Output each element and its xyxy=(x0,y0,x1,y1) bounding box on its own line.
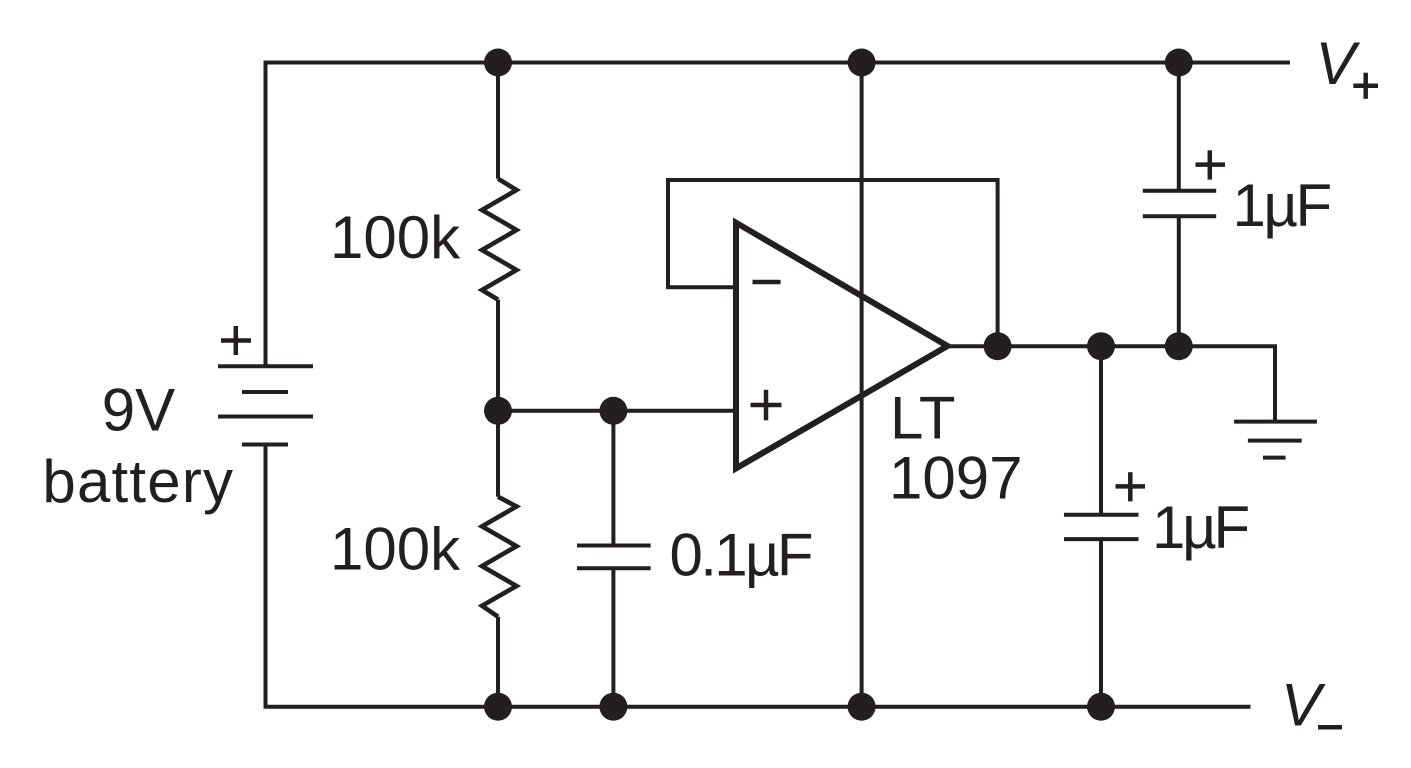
svg-text:LT: LT xyxy=(890,384,956,451)
svg-text:100k: 100k xyxy=(330,516,461,583)
svg-text:0.1µF: 0.1µF xyxy=(670,522,812,589)
svg-text:battery: battery xyxy=(42,448,234,515)
svg-text:1µF: 1µF xyxy=(1152,494,1249,561)
svg-text:V: V xyxy=(1316,30,1361,97)
svg-text:9V: 9V xyxy=(102,377,175,444)
svg-text:100k: 100k xyxy=(330,204,461,271)
svg-text:V: V xyxy=(1281,672,1326,739)
svg-text:1µF: 1µF xyxy=(1233,172,1331,239)
svg-text:1097: 1097 xyxy=(889,445,1022,512)
